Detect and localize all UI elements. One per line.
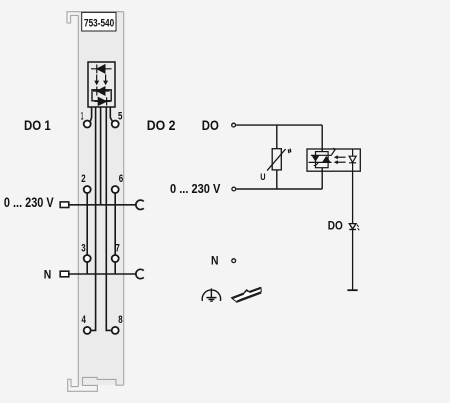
light coupling arrow 1 — [337, 156, 346, 158]
wire U1 to pin 1 — [90, 107, 91, 121]
svg-text:4: 4 — [82, 314, 87, 326]
svg-text:U: U — [260, 171, 265, 182]
node line of diode D1 — [91, 68, 112, 70]
wire U1 to pin 4 — [91, 107, 96, 330]
diode D3 cathode bar — [106, 97, 108, 105]
svg-text:7: 7 — [115, 243, 119, 255]
diode D1 — [97, 65, 105, 73]
pin 7 terminal — [112, 255, 119, 262]
pin 5 terminal — [112, 121, 119, 128]
pin 3 terminal — [84, 255, 91, 262]
module top edge with hook — [67, 12, 124, 23]
svg-text:6: 6 — [119, 173, 123, 185]
wire varistor bottom lead — [276, 170, 278, 189]
pin 1 terminal — [84, 121, 91, 128]
svg-text:DO 1: DO 1 — [24, 117, 51, 133]
terminal node N (open circle, unconnected) — [232, 259, 236, 263]
pin 2 terminal — [84, 186, 91, 193]
wire down into triac box — [321, 125, 323, 152]
varistor RV1 tick marks — [288, 149, 290, 154]
protective earth icon bar 3 — [210, 300, 213, 302]
svg-text:DO: DO — [202, 117, 219, 133]
N rail wire — [69, 273, 137, 275]
wire DO terminal to triac branch — [236, 124, 322, 126]
ground bar — [347, 289, 357, 291]
DIN rail icon middle step — [244, 290, 249, 293]
thyristor (up) — [322, 156, 331, 162]
diode D2 — [97, 87, 105, 95]
wire DO status LED to ground — [352, 230, 354, 291]
DO status LED light arrows — [357, 225, 360, 231]
protective earth icon stem — [210, 288, 212, 298]
type label box 753-540 — [82, 12, 116, 31]
module body fill — [78, 12, 123, 385]
wire varistor top lead — [276, 125, 278, 149]
wire U1 to pin 5 — [110, 107, 112, 121]
wire coupler to DO status LED — [352, 171, 354, 223]
svg-text:8: 8 — [118, 314, 122, 326]
triac top rail — [311, 154, 332, 156]
wire 0...230V terminal to triac branch — [236, 188, 322, 190]
coupler LED bottom lead — [352, 163, 354, 171]
thyristor (down) — [312, 155, 320, 161]
terminal node 0...230 V (open circle) — [232, 187, 236, 191]
output stage inner box — [92, 90, 111, 101]
triac inner box — [316, 152, 329, 168]
coupler LED top lead — [352, 149, 354, 156]
coupler LED cathode bar — [349, 162, 356, 164]
pin 4 terminal — [84, 327, 91, 334]
L rail continuation connector — [136, 200, 144, 209]
pin 8 terminal — [112, 327, 119, 334]
protective earth icon bar 1 — [206, 297, 216, 299]
LED arrow 1 — [96, 75, 98, 82]
svg-text:753-540: 753-540 — [84, 17, 114, 29]
varistor RV1 body — [272, 149, 281, 170]
coupler LED triangle — [349, 156, 356, 162]
pin 6 terminal — [112, 186, 119, 193]
diode D2 stub wires — [93, 90, 110, 92]
electronics block U1 (output stage with status LED) — [88, 62, 115, 107]
svg-text:DO: DO — [328, 221, 343, 233]
svg-text:1: 1 — [81, 111, 83, 123]
varistor RV1 diagonal stroke — [267, 149, 286, 171]
svg-text:N: N — [44, 268, 52, 281]
N supply terminal (square) — [60, 271, 69, 277]
wire triac box to bottom wire — [321, 168, 323, 189]
wire pin 7 to N rail — [114, 262, 116, 274]
module right edge — [123, 12, 125, 386]
svg-text:0 ... 230 V: 0 ... 230 V — [170, 181, 221, 196]
LED arrow 2 — [105, 75, 107, 82]
diode D3 — [98, 98, 106, 106]
triac bottom rail — [309, 161, 332, 163]
svg-text:2: 2 — [81, 173, 85, 185]
terminal node DO (open circle) — [232, 123, 236, 127]
wire U1 to pin 8 — [106, 107, 111, 330]
DIN rail icon upper-right flange — [249, 288, 261, 292]
svg-text:DO 2: DO 2 — [147, 117, 176, 133]
DIN carrier rail icon outline — [232, 287, 262, 302]
svg-text:3: 3 — [81, 243, 85, 255]
DO status LED cathode bar — [349, 229, 356, 231]
DIN rail icon upper-left flange — [232, 294, 244, 299]
wire pin 3 to N rail — [86, 262, 88, 274]
gate lead mark — [331, 148, 335, 155]
module bottom foot outline — [68, 377, 124, 391]
wire pin 2 to pin 3 — [86, 193, 88, 255]
DO status LED triangle — [349, 224, 356, 229]
wire pin 6 to pin 7 — [114, 193, 116, 255]
diode D2 cathode bar — [96, 87, 98, 96]
protective earth icon bar 2 — [209, 299, 215, 301]
gate lead curve — [314, 163, 319, 166]
L rail wire 0...230 V — [69, 204, 137, 206]
diode D3 stub wires — [95, 100, 111, 102]
light coupling arrow 2 — [337, 161, 346, 163]
N rail continuation connector — [136, 269, 144, 278]
module left edge — [77, 15, 79, 386]
wire U1 to L rail — [100, 107, 102, 205]
protective earth icon arc — [202, 290, 220, 301]
diode D1 cathode bar — [96, 65, 98, 74]
svg-text:0 ... 230 V: 0 ... 230 V — [4, 195, 54, 210]
DIN rail icon lower edge — [237, 293, 261, 302]
svg-text:5: 5 — [118, 111, 122, 123]
opto-triac coupler U2 outer box — [307, 149, 360, 171]
svg-text:N: N — [211, 255, 219, 268]
L supply terminal (square) — [60, 202, 69, 208]
